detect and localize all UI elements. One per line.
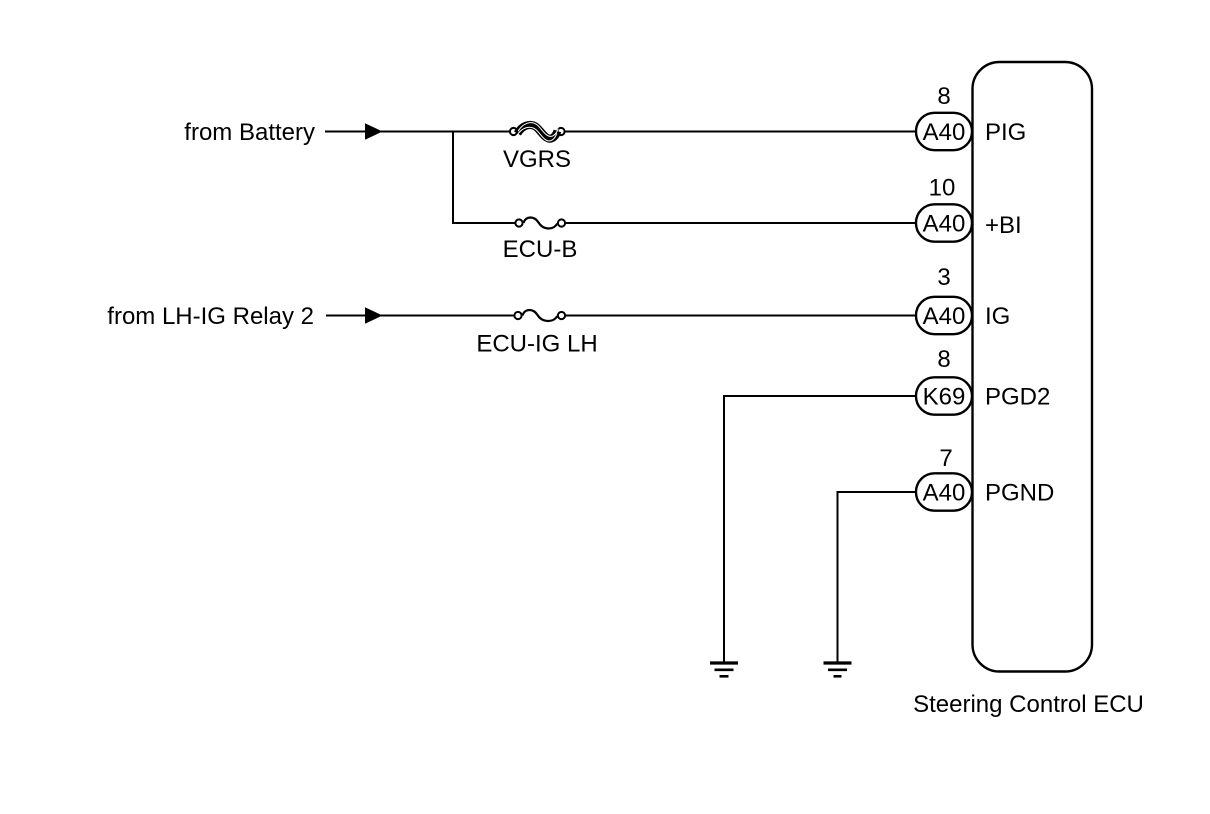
wire battery feed [325,131,367,133]
connector A40 (PGND) [916,473,972,510]
svg-text:PGD2: PGD2 [985,384,1050,411]
svg-text:PIG: PIG [985,119,1026,146]
svg-text:VGRS: VGRS [503,146,571,173]
wire VGRS fuse to pin PIG [565,131,917,133]
connector K69 (PGD2) [916,377,972,414]
svg-text:ECU-B: ECU-B [503,236,578,263]
svg-text:A40: A40 [923,119,966,146]
arrow battery direction [365,123,383,140]
fuse VGRS (fusible link) [510,123,565,141]
svg-text:K69: K69 [923,384,966,411]
svg-text:A40: A40 [923,211,966,238]
wire branch junction down to ECU-B row [452,132,454,225]
svg-text:from LH-IG Relay 2: from LH-IG Relay 2 [107,303,314,330]
connector A40 (IG) [916,297,972,334]
wire branch to fuse ECU-B [452,222,515,224]
wire PGND to ground (horizontal) [837,491,918,493]
ground (PGND) [824,663,852,676]
arrow relay direction [365,307,383,324]
Steering Control ECU body [973,62,1093,672]
svg-text:A40: A40 [923,480,966,507]
svg-text:IG: IG [985,303,1010,330]
wire PGD2 to ground (horizontal) [723,395,917,397]
svg-text:8: 8 [937,346,950,373]
svg-text:7: 7 [939,445,952,472]
wire PGD2 ground drop (vertical) [723,395,725,662]
svg-text:PGND: PGND [985,480,1054,507]
fuse ECU-B [515,217,565,228]
connector A40 (+BI) [916,204,972,241]
wire relay to fuse ECU-IG LH [381,315,514,317]
wire ECU-IG LH fuse to pin IG [566,315,918,317]
ground (PGD2) [710,663,738,676]
wire PGND ground drop (vertical) [837,491,839,662]
svg-text:8: 8 [937,83,950,110]
svg-text:3: 3 [937,264,950,291]
connector A40 (PIG) [916,113,972,150]
svg-text:A40: A40 [923,303,966,330]
svg-text:10: 10 [929,175,956,202]
fuse ECU-IG LH [514,310,565,321]
svg-text:+BI: +BI [985,212,1022,239]
wire relay feed [326,315,367,317]
svg-text:from Battery: from Battery [184,119,315,146]
svg-text:Steering Control ECU: Steering Control ECU [913,691,1144,718]
wire battery to fuse VGRS [381,131,510,133]
wire ECU-B fuse to pin +BI [566,222,918,224]
svg-text:ECU-IG LH: ECU-IG LH [476,331,597,358]
